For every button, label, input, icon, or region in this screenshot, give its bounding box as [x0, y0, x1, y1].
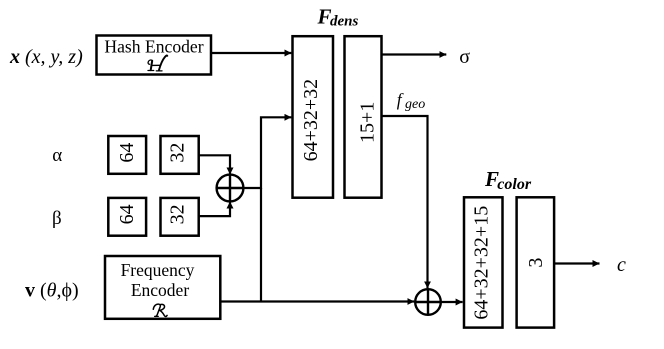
svg-text:color: color	[497, 176, 532, 193]
svg-text:geo: geo	[405, 97, 425, 112]
svg-text:x (x, y, z): x (x, y, z)	[9, 46, 83, 68]
script R symbol	[153, 304, 167, 316]
svg-text:Encoder: Encoder	[131, 280, 189, 300]
svg-text:64+32+32: 64+32+32	[300, 79, 322, 162]
svg-text:15+1: 15+1	[357, 102, 379, 143]
wire adder2 to Fcolor input	[441, 301, 463, 303]
beta box 64	[108, 198, 146, 236]
wire f_geo from Fdens down to color adder	[382, 116, 428, 288]
svg-text:32: 32	[166, 204, 188, 224]
wire adder1 branch down to frequency line	[260, 188, 262, 302]
beta box 32	[161, 198, 199, 236]
Fdens layer box 15+1	[345, 36, 382, 198]
svg-text:α: α	[52, 145, 62, 166]
svg-text:3: 3	[525, 258, 547, 268]
wire alpha 32 to adder1 top	[199, 155, 230, 174]
svg-text:Hash Encoder: Hash Encoder	[104, 36, 203, 56]
alpha box 32	[161, 136, 199, 174]
alpha box 64	[108, 136, 146, 174]
Fcolor layer box 64+32+32+15	[464, 197, 503, 327]
Fdens layer box 64+32+32	[293, 36, 334, 198]
adder1 circle-plus	[217, 175, 244, 202]
wire adder1 to Fdens input	[243, 117, 291, 188]
svg-text:64: 64	[116, 143, 138, 163]
wire beta 32 to adder1 bottom	[199, 202, 230, 217]
wire c output	[554, 262, 599, 264]
svg-text:64+32+32+15: 64+32+32+15	[471, 206, 493, 320]
svg-text:σ: σ	[459, 46, 470, 68]
wire hash encoder to Fdens	[211, 52, 291, 54]
svg-text:c: c	[617, 254, 626, 276]
adder2 circle-plus	[415, 289, 441, 315]
frequency encoder box	[105, 256, 220, 319]
svg-text:v (θ,ϕ): v (θ,ϕ)	[25, 280, 79, 302]
script H symbol	[148, 55, 167, 70]
Fcolor layer box 3	[517, 197, 555, 327]
svg-text:dens: dens	[330, 13, 359, 29]
wire frequency encoder to adder2	[220, 300, 414, 302]
svg-text:64: 64	[116, 204, 138, 224]
svg-text:β: β	[52, 208, 62, 229]
wire sigma output	[382, 53, 447, 55]
svg-text:32: 32	[166, 143, 188, 163]
hash encoder box	[97, 36, 212, 75]
svg-text:f: f	[397, 90, 404, 110]
svg-text:Frequency: Frequency	[121, 260, 195, 280]
